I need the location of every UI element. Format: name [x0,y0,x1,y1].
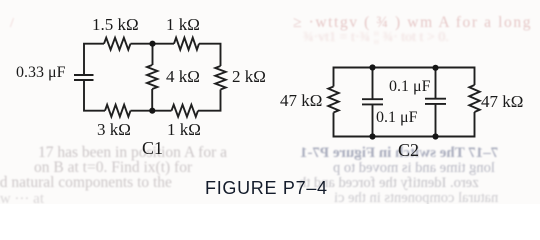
resistor 47 kOhm (right) zigzag [469,85,479,112]
label: 0.33 uF [16,64,65,82]
capacitor 0.33 uF plates [74,75,94,80]
resistor 1 kOhm (bottom) zigzag [172,105,199,117]
label: 0.1 uF (bottom) [376,109,417,127]
label: 1 kOhm (top) [166,15,200,35]
ghost bleed text, top right (pink, reads normal) [293,14,532,32]
wire: C2 top rail + upper leads of side resistors [334,68,475,87]
wire: bottom-left corner + left edge lower [84,80,105,111]
resistor 1 kOhm (top) zigzag [174,38,199,50]
capacitor 0.1 uF (left) plates [362,99,383,104]
wire: right edge lower + bottom-right segment [198,90,221,111]
node: C1 top junction dot [149,41,155,47]
ghost bleed text, bottom left (gray, reads normal) [38,144,227,162]
wire: C2 bottom rail + lower leads of side resistors [334,112,475,137]
resistor 1.5 kOhm zigzag [104,38,131,50]
node: C2 top-right junction dot [432,65,438,71]
caption: FIGURE P7-4 [205,178,328,199]
label: C1 [142,138,163,159]
label: C2 [398,140,419,161]
resistor 4 kOhm zigzag [147,65,157,89]
resistor 3 kOhm zigzag [105,105,131,117]
ghost pink tick top-left [10,16,14,32]
label: 1.5 kOhm [92,15,139,35]
label: 47 kOhm (right) [481,92,523,112]
wire: right capacitor branch leads [435,68,437,137]
wire: middle branch upper lead [152,44,154,65]
capacitor 0.1 uF (right) plates [425,99,446,104]
wire: middle branch lower lead [151,89,153,111]
label: 2 kOhm [232,67,266,87]
label: 1 kOhm (bottom) [167,120,201,140]
wire: top middle segment [131,43,175,45]
node: C2 top-left junction dot [369,64,375,70]
node: C2 bottom-left junction dot [369,133,375,139]
wire: bottom middle segment [131,110,172,112]
wire: top-right corner + right edge upper [199,44,221,66]
wire: left capacitor branch leads [372,68,374,137]
wire: C1 left edge upper + top-left segment [84,44,104,75]
resistor 47 kOhm (left) zigzag [328,87,338,113]
label: 47 kOhm (left) [280,91,322,111]
node: C1 bottom junction dot [149,108,155,114]
node: C2 bottom-right junction dot [432,133,438,139]
label: 4 kOhm [166,67,200,87]
ghost bleed text, bottom right (gray-blue, mirrored) [300,145,498,162]
label: 0.1 uF (top) [389,78,430,96]
resistor 2 kOhm zigzag [215,66,225,90]
label: 3 kOhm [97,120,131,140]
